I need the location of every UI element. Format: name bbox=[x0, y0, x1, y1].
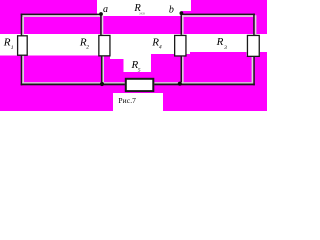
svg-text:экв: экв bbox=[139, 10, 145, 15]
wire left vertical lower light edge bbox=[22, 56, 24, 84]
svg-text:4: 4 bbox=[159, 45, 162, 51]
resistor R5 box (horizontal, bottom) bbox=[126, 79, 154, 91]
wire bottom horizontal black left bbox=[21, 84, 125, 86]
resistor R1 box bbox=[18, 36, 28, 55]
wire right vertical lower black bbox=[253, 57, 255, 86]
wire top-right horizontal black bbox=[181, 14, 254, 16]
wire top-right horizontal light edge bbox=[181, 15, 253, 17]
wire bottom horizontal black right bbox=[154, 84, 255, 86]
junction dot bottom right bbox=[178, 82, 182, 86]
white caption box bbox=[113, 93, 163, 111]
svg-text:R: R bbox=[3, 37, 11, 49]
svg-text:5: 5 bbox=[138, 68, 141, 74]
white band right edge bbox=[260, 34, 267, 52]
wire node-a vertical upper light edge bbox=[102, 15, 104, 35]
wire node-a vertical lower black bbox=[101, 56, 103, 83]
wire node-a vertical lower light edge bbox=[103, 56, 105, 83]
white band middle left bbox=[0, 34, 110, 56]
wire top-left horizontal black bbox=[21, 14, 102, 16]
svg-text:3: 3 bbox=[223, 45, 227, 51]
svg-text:b: b bbox=[169, 4, 174, 15]
wire top-left horizontal light edge bbox=[22, 15, 100, 17]
svg-text:1: 1 bbox=[11, 45, 14, 51]
svg-text:R: R bbox=[216, 36, 224, 48]
wire left vertical lower black bbox=[21, 56, 23, 86]
svg-text:2: 2 bbox=[86, 45, 89, 51]
wire right vertical upper light edge bbox=[255, 15, 257, 35]
wire left vertical upper black bbox=[21, 14, 23, 36]
resistor R2 box bbox=[99, 35, 110, 55]
svg-text:Рис.7: Рис.7 bbox=[118, 96, 136, 105]
resistor R4 box (rightmost) bbox=[247, 35, 259, 56]
wire node-b vertical lower black bbox=[181, 57, 183, 84]
white strip top right part (label b) bbox=[182, 0, 192, 11]
white band around R box 4 bbox=[246, 34, 260, 56]
white strip R5 label bbox=[124, 34, 151, 72]
wire left vertical upper light edge bbox=[22, 17, 24, 36]
wire node-b vertical upper black bbox=[181, 13, 183, 35]
svg-text:a: a bbox=[103, 4, 108, 15]
wire node-b vertical upper light edge bbox=[182, 15, 184, 35]
white strip top (labels a, Rэкв, b) bbox=[97, 0, 182, 16]
resistor R3 box (third from left) bbox=[175, 35, 186, 56]
wire right vertical upper black bbox=[253, 14, 255, 36]
wire right vertical lower light edge bbox=[252, 57, 254, 82]
node a dot bbox=[99, 12, 103, 16]
junction dot bottom left bbox=[100, 82, 104, 86]
white band behind R2-R5 gap bbox=[110, 34, 125, 59]
white band middle center bbox=[151, 34, 190, 54]
node b dot bbox=[180, 11, 184, 15]
wire bottom horizontal light edge right bbox=[154, 82, 253, 83]
wire node-b vertical lower light edge bbox=[182, 57, 184, 84]
wire bottom horizontal light edge left bbox=[22, 82, 125, 83]
white band middle right bbox=[190, 34, 246, 52]
wire node-a vertical upper black bbox=[100, 14, 102, 36]
